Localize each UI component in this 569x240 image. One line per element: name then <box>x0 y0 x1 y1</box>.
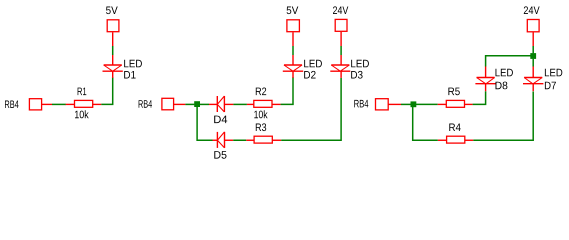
wire R3 to LED D3 <box>281 78 341 140</box>
label R3 <box>256 123 266 131</box>
label 24V (middle) <box>333 6 348 14</box>
pin box RB4 (right) <box>376 99 389 110</box>
pin stub from RB4 box (left) <box>42 103 52 105</box>
LED D2 <box>283 55 303 78</box>
pin box RB4 (left) <box>29 99 41 110</box>
junction node (right) <box>411 101 417 107</box>
wire junction down to D5 branch <box>197 107 212 140</box>
LED D1 <box>103 55 123 78</box>
wire RB4 box to junction <box>185 103 194 105</box>
label LED (D1) <box>124 60 142 67</box>
label D3 <box>351 71 362 79</box>
label D2 <box>304 71 315 79</box>
wire junction to LED D7 <box>532 59 534 67</box>
pin box RB4 (middle) <box>162 98 174 110</box>
LED D8 <box>475 67 495 92</box>
label D7 <box>545 69 562 76</box>
resistor R2 <box>247 100 281 107</box>
wire RB4 box to R1 <box>52 103 66 105</box>
wire RB4 box to junction (right) <box>401 103 411 105</box>
diode D5 <box>213 132 234 148</box>
wire D4 to R2 <box>233 103 247 105</box>
label LED (D3) <box>351 60 369 67</box>
label RB4 (left) <box>5 101 19 108</box>
junction node (middle) <box>194 101 200 107</box>
supply 5V (left) <box>107 20 119 46</box>
wire junction to D4 <box>200 103 209 105</box>
wire LED D3 to 24V supply <box>340 46 342 55</box>
label R4 <box>545 82 556 89</box>
wire LED D2 to 5V supply <box>292 46 294 55</box>
label D8 <box>495 82 507 90</box>
supply 24V (middle) <box>335 19 347 46</box>
wire R2 to LED D2 <box>281 77 293 104</box>
supply 5V (middle) <box>287 20 300 46</box>
wire LED D1 to 5V supply <box>112 46 114 55</box>
label R2 <box>256 87 266 95</box>
wire D5 to R3 <box>233 139 246 141</box>
label D1 <box>124 71 135 78</box>
wire R5 to LED D8 <box>473 91 486 104</box>
supply 24V (right) <box>527 20 539 47</box>
wire R1 to LED D1 <box>101 77 112 104</box>
label LED (D7) <box>449 124 460 131</box>
wire LED D8 up and over to junction under 24V <box>486 56 534 67</box>
label D5 <box>214 151 226 159</box>
wire 24V to junction <box>532 46 534 53</box>
label RB4 (right) <box>354 100 368 107</box>
wire R4 to junction drop (right) <box>413 107 438 140</box>
label LED (D8) <box>496 69 513 76</box>
label D4 <box>214 116 227 123</box>
diode D4 <box>209 96 233 112</box>
wire LED D7 down to R4 <box>473 92 533 141</box>
label RB4 (middle) <box>139 100 152 107</box>
resistor R3 <box>246 136 281 143</box>
label 24V (right) <box>524 6 540 14</box>
resistor R4 <box>438 136 473 143</box>
label 5V (left) <box>106 7 118 15</box>
label R1 <box>78 88 87 95</box>
value 10k (R2) <box>254 110 267 118</box>
junction node (under 24V) <box>530 53 536 59</box>
resistor R1 <box>66 103 75 105</box>
resistor R5 <box>438 100 473 107</box>
pin stub from RB4 box (right) <box>388 103 401 105</box>
wire junction to R5 <box>415 103 437 105</box>
label LED (D2) <box>304 60 322 67</box>
label R5 <box>448 88 459 96</box>
LED D3 <box>330 55 350 78</box>
value 10k (R1) <box>75 110 89 118</box>
LED D7 <box>523 67 543 92</box>
pin stub from RB4 box (middle) <box>174 103 186 105</box>
label 5V (middle) <box>287 7 299 15</box>
